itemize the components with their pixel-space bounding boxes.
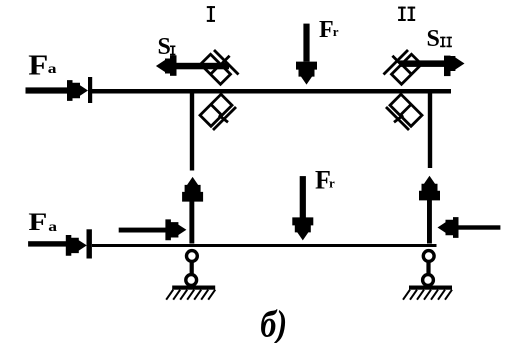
svg-text:F: F [28,48,48,81]
svg-text:F: F [28,209,47,237]
svg-text:б): б) [260,303,287,343]
svg-text:S: S [427,26,440,52]
svg-text:a: a [48,62,57,77]
svg-text:r: r [333,24,339,39]
svg-text:S: S [158,34,171,60]
svg-text:a: a [48,220,57,235]
svg-text:r: r [329,176,335,191]
svg-text:F: F [319,17,334,43]
